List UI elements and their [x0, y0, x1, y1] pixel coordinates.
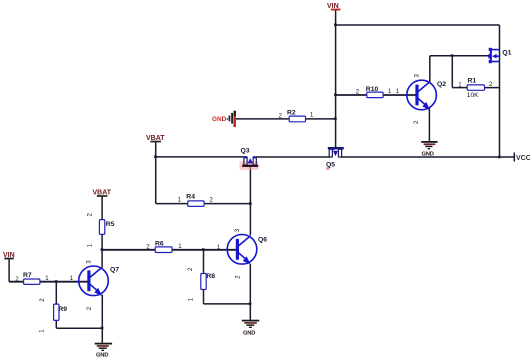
svg-text:R4: R4 — [186, 194, 195, 201]
svg-text:R1: R1 — [468, 78, 477, 85]
svg-text:GND: GND — [243, 330, 255, 336]
svg-text:R9: R9 — [58, 306, 67, 313]
svg-text:10K: 10K — [467, 92, 479, 99]
svg-text:VCC: VCC — [516, 155, 530, 162]
svg-text:Q6: Q6 — [258, 237, 267, 244]
svg-text:R5: R5 — [106, 221, 115, 228]
svg-text:R6: R6 — [155, 241, 164, 248]
svg-text:Q5: Q5 — [326, 161, 335, 168]
svg-text:GND: GND — [212, 116, 227, 123]
svg-text:GND: GND — [422, 151, 434, 157]
svg-text:R8: R8 — [206, 273, 215, 280]
svg-text:R7: R7 — [23, 272, 32, 279]
svg-text:Q1: Q1 — [502, 50, 511, 57]
svg-text:Q3: Q3 — [241, 148, 250, 155]
svg-text:Q2: Q2 — [437, 81, 446, 88]
svg-text:R10: R10 — [366, 86, 379, 93]
svg-text:GND: GND — [96, 352, 108, 358]
svg-text:R2: R2 — [287, 110, 296, 117]
svg-text:Q7: Q7 — [110, 267, 119, 274]
